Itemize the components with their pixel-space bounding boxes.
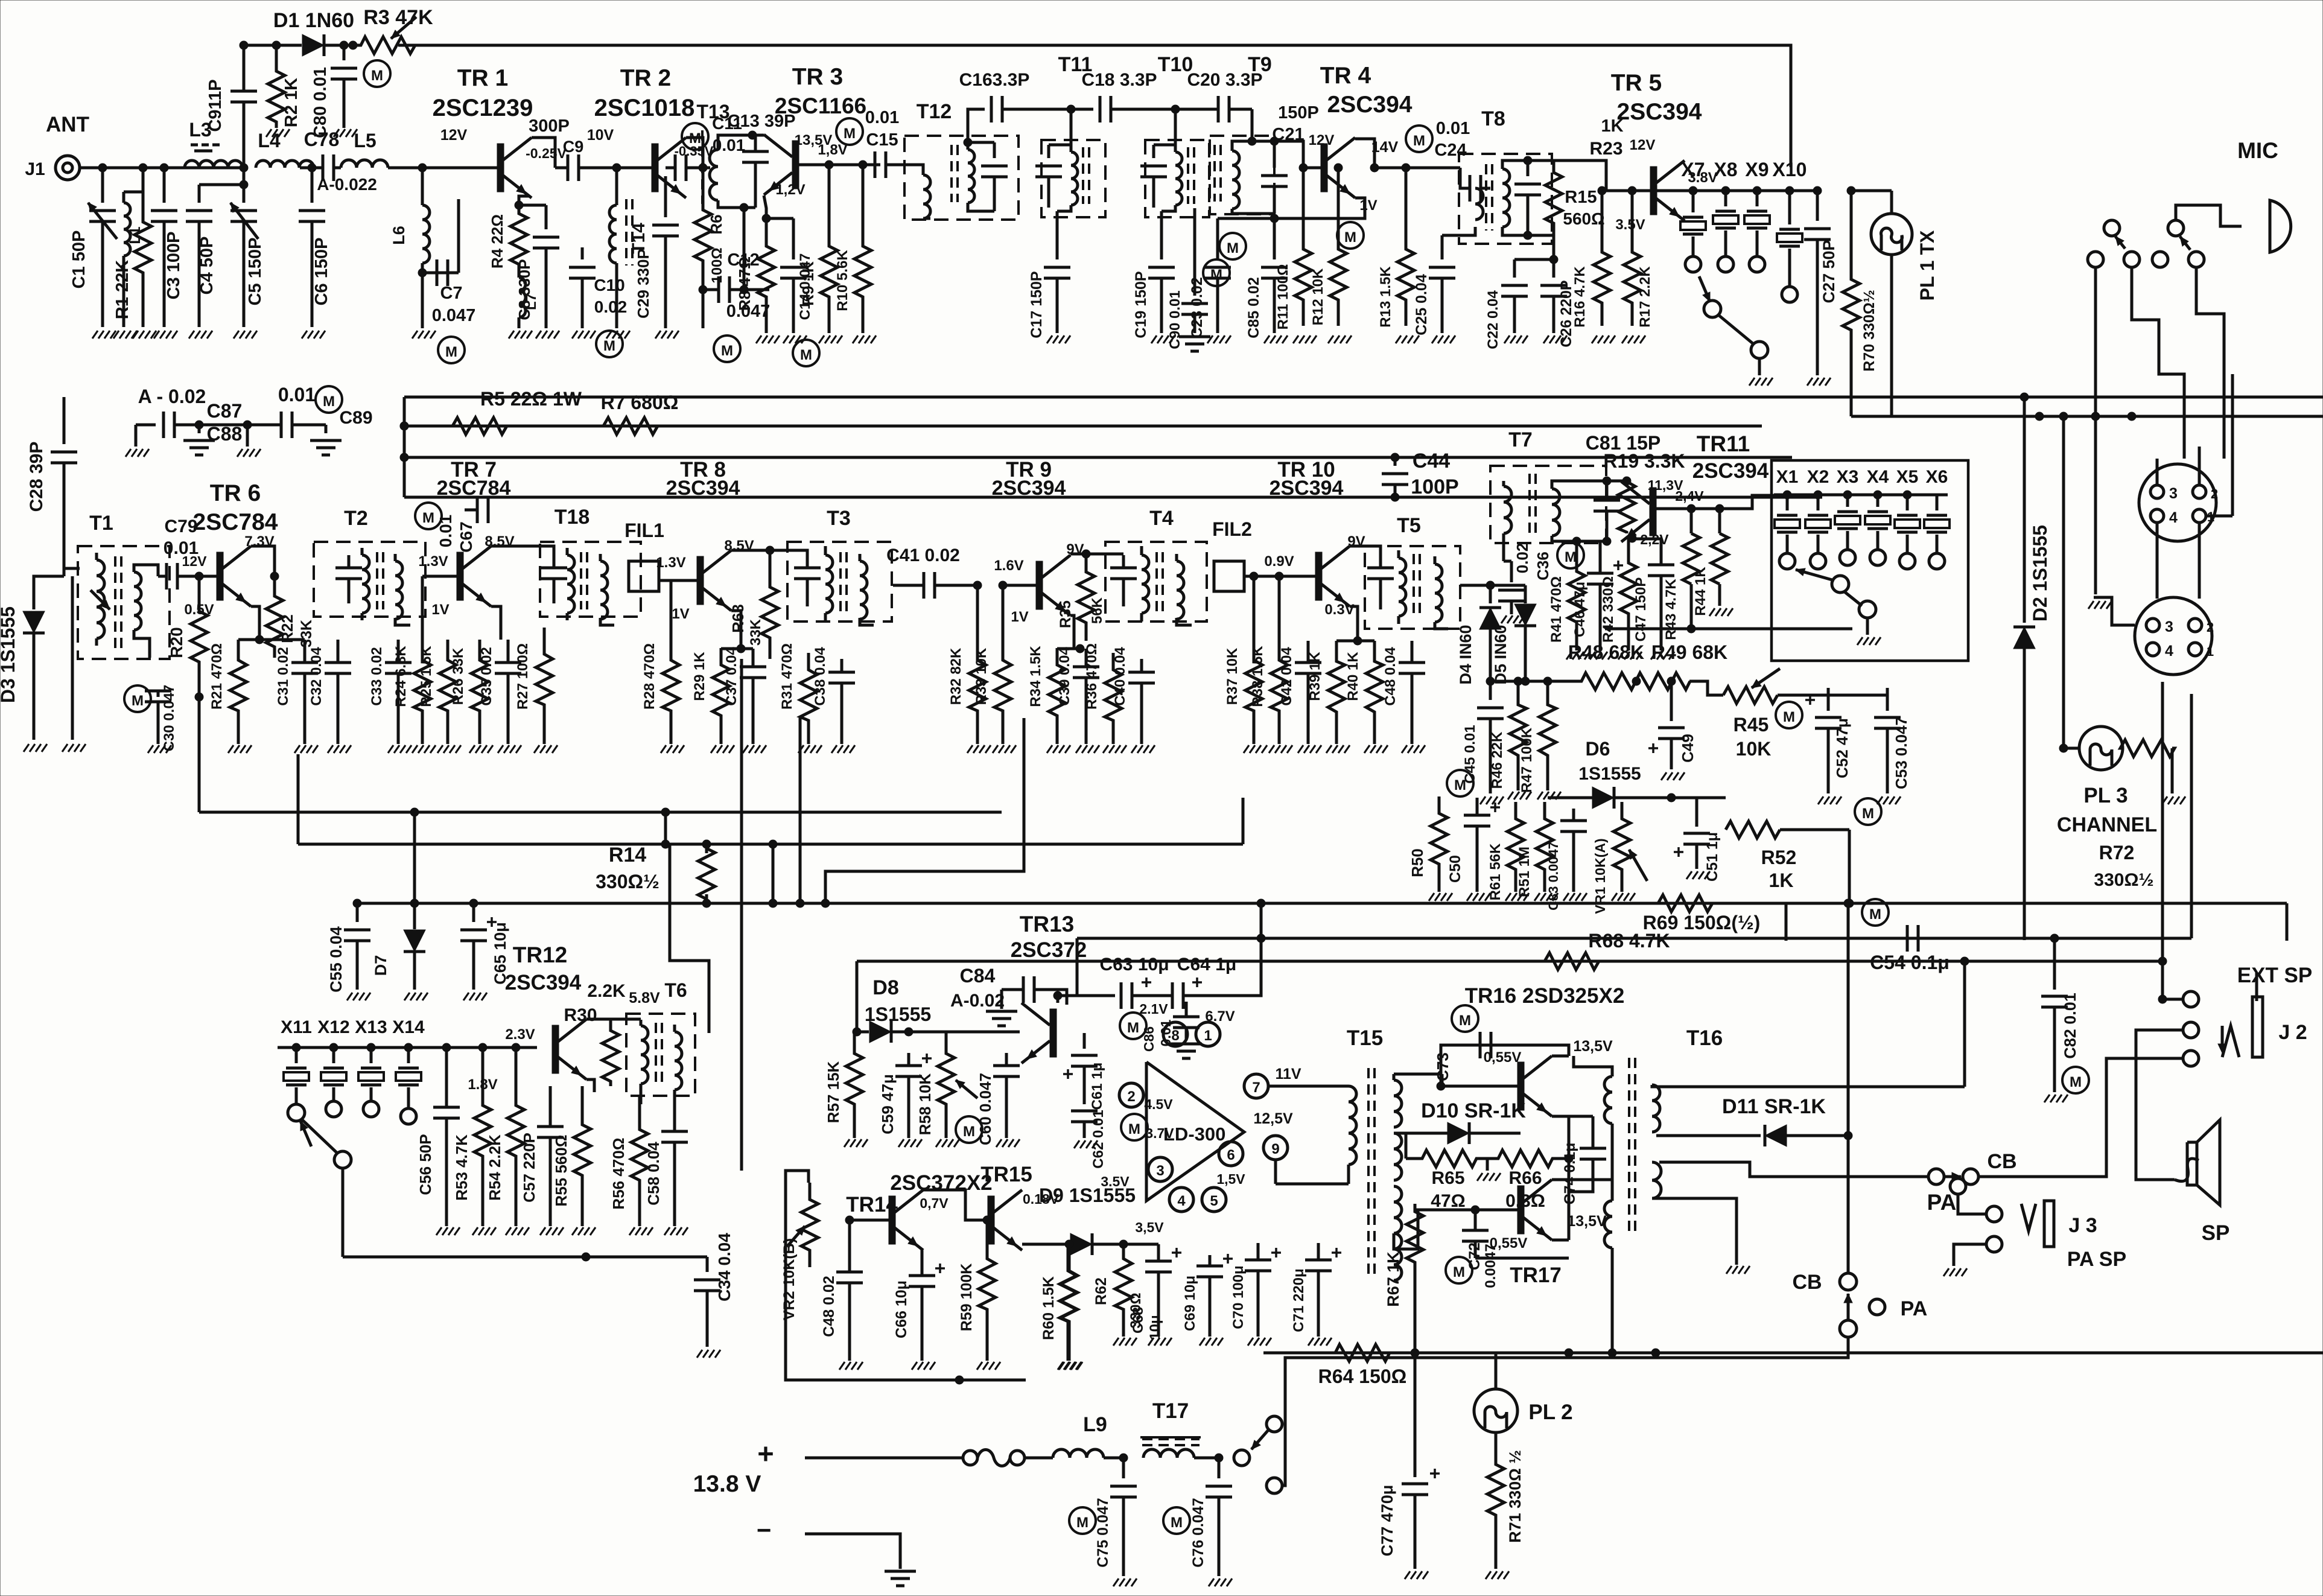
- label 3.5V: [1615, 217, 1645, 233]
- wire TR12 emitter: [586, 1079, 594, 1092]
- capacitor C51: [1674, 798, 1710, 879]
- svg-text:T17: T17: [1152, 1399, 1189, 1423]
- svg-text:2SC394: 2SC394: [1692, 459, 1769, 483]
- label 1.6V: [994, 558, 1023, 574]
- svg-text:TR12: TR12: [513, 943, 567, 967]
- svg-text:C60 0.047: C60 0.047: [976, 1073, 994, 1145]
- svg-text:2SC784: 2SC784: [193, 509, 278, 535]
- label 13.5V TR17: [1567, 1213, 1607, 1230]
- svg-text:4: 4: [1177, 1193, 1186, 1209]
- ladder R27 100: [515, 628, 558, 753]
- svg-text:X4: X4: [1867, 467, 1889, 487]
- label TR11 2SC394: [1692, 431, 1769, 483]
- label 0.18V: [1023, 1191, 1060, 1207]
- svg-text:M: M: [1783, 709, 1795, 725]
- gnd R65: [1477, 1173, 1501, 1181]
- svg-text:2SC1018: 2SC1018: [594, 95, 695, 121]
- svg-text:PA: PA: [1927, 1190, 1957, 1215]
- svg-text:7: 7: [1252, 1079, 1260, 1096]
- wire pin7 line: [1268, 1085, 1349, 1088]
- label TR14: [846, 1193, 898, 1216]
- pin 2: [1119, 1083, 1143, 1107]
- transistor TR6: [199, 546, 251, 606]
- wire mesh final A: [1892, 412, 2323, 421]
- ladder C47 150P: [1632, 539, 1674, 660]
- ladder R33 10K: [973, 581, 1016, 753]
- label TR5 2SC394: [1611, 70, 1702, 125]
- op-amp LD-300: [1146, 1062, 1244, 1201]
- crystal X8: [1713, 191, 1738, 272]
- label SP: [2202, 1221, 2230, 1245]
- M mark C23: [1219, 233, 1246, 259]
- label C22 0.04: [1485, 290, 1501, 349]
- label 0.01 C24: [1434, 119, 1470, 160]
- crystal X3: [1835, 495, 1860, 565]
- transformer T10 coils: [1154, 145, 1194, 211]
- svg-text:M: M: [1565, 549, 1577, 565]
- svg-text:R35: R35: [1057, 600, 1074, 628]
- label R71 330: [1506, 1450, 1524, 1543]
- label FIL1: [624, 520, 664, 541]
- svg-text:M: M: [1869, 906, 1881, 923]
- resistor R22 33K: [266, 572, 283, 658]
- svg-text:3: 3: [2165, 618, 2173, 635]
- svg-text:R33 10K: R33 10K: [973, 647, 990, 705]
- svg-text:R43 4.7K: R43 4.7K: [1663, 579, 1679, 640]
- M mark C54: [1862, 899, 1889, 926]
- svg-text:M: M: [1128, 1121, 1140, 1137]
- ladder C58 0.04: [644, 1096, 688, 1235]
- wire x494 riser: [297, 754, 300, 844]
- M C67 block: [415, 497, 488, 553]
- svg-text:R31 470Ω: R31 470Ω: [779, 643, 795, 710]
- label TR4 2SC394: [1320, 63, 1413, 118]
- svg-text:R36 470Ω: R36 470Ω: [1084, 643, 1100, 710]
- wire PL3 left: [2059, 744, 2079, 752]
- wire TR2 collector: [686, 138, 703, 168]
- wire TR4 emitter: [1270, 198, 1365, 223]
- svg-text:+: +: [757, 1437, 774, 1469]
- crystal X13: [358, 1048, 384, 1117]
- label T11: [1058, 53, 1093, 76]
- svg-text:2: 2: [2211, 486, 2218, 501]
- R67 final: [1406, 1204, 1423, 1353]
- label TR3 2SC1166: [775, 64, 866, 118]
- wire TR16 emitter: [1552, 1115, 1569, 1118]
- wire T15 pb3: [1302, 1183, 1349, 1186]
- label D4 1N60: [1457, 625, 1475, 684]
- capacitor T18 tune: [541, 555, 567, 603]
- svg-text:T16: T16: [1686, 1026, 1723, 1050]
- ladder R60b: [1040, 1240, 1082, 1370]
- svg-text:T6: T6: [664, 979, 687, 1001]
- coil T12 input: [908, 165, 930, 218]
- label C10 0.02: [594, 276, 627, 316]
- capacitor T12 tune: [968, 142, 1008, 211]
- inductor L1: [113, 192, 143, 339]
- svg-text:C50: C50: [1447, 855, 1464, 883]
- resistor R48 68K: [1581, 673, 1636, 690]
- label L6: [390, 226, 408, 245]
- label C1 50P: [69, 230, 89, 289]
- wire rail y758: [404, 456, 1792, 459]
- label D11 SR-1K: [1722, 1095, 1826, 1118]
- svg-text:C66 10μ: C66 10μ: [893, 1280, 910, 1338]
- wire J2 c2 link: [2136, 1030, 2183, 1180]
- label 1.5V: [1216, 1171, 1245, 1187]
- svg-text:R32 82K: R32 82K: [948, 647, 964, 705]
- ladder C33 0.02: [369, 640, 412, 753]
- wire C20 to T9: [1248, 109, 1256, 145]
- capacitor C63: [1121, 982, 1172, 1009]
- potentiometer R58 10K: [916, 1032, 977, 1147]
- svg-text:11V: 11V: [1275, 1066, 1301, 1083]
- svg-text:0,7V: 0,7V: [920, 1195, 949, 1211]
- capacitor C41 0.02: [893, 572, 977, 599]
- label R65 47: [1431, 1168, 1465, 1211]
- svg-text:C62 0.01: C62 0.01: [1090, 1110, 1107, 1168]
- wire conn1 right: [2206, 374, 2232, 516]
- label C77 470u: [1378, 1485, 1396, 1557]
- label X11-X14: [281, 1017, 425, 1037]
- svg-text:R38 1.5K: R38 1.5K: [1250, 646, 1266, 707]
- M mark C7: [438, 337, 465, 363]
- ladder R39 1K: [1307, 637, 1362, 753]
- wire vm 3380: [2059, 412, 2068, 748]
- label R4 22: [488, 214, 506, 269]
- svg-text:5.8V: 5.8V: [629, 990, 660, 1006]
- label C51 1u: [1704, 832, 1721, 882]
- wire TR14-TR15: [923, 1190, 987, 1220]
- variable capacitor C1 50P: [88, 168, 117, 339]
- label 9V: [1347, 533, 1365, 550]
- label 2SC372X2: [890, 1171, 992, 1195]
- resistor R13 1.5K: [1396, 168, 1419, 343]
- svg-text:FIL2: FIL2: [1212, 518, 1252, 540]
- svg-text:M: M: [132, 693, 144, 709]
- svg-text:C17 150P: C17 150P: [1028, 271, 1045, 338]
- svg-text:0.3V: 0.3V: [1324, 602, 1354, 618]
- label 8.5V: [485, 533, 514, 550]
- ladder R57 15K: [824, 1032, 868, 1147]
- label R49 68K: [1651, 641, 1727, 663]
- svg-text:C15: C15: [866, 130, 898, 150]
- transistor TR1: [418, 138, 532, 198]
- label R20 6.8K: [167, 627, 186, 658]
- label TR10 2SC394: [1270, 458, 1344, 500]
- ladder R41 470: [1548, 537, 1590, 660]
- block C87 C88 C89: [126, 412, 342, 457]
- wire top bus: [398, 45, 1791, 167]
- label C13 39P: [728, 112, 796, 131]
- svg-text:0.01: 0.01: [278, 384, 316, 405]
- label 8.5V: [724, 538, 754, 554]
- label LD300d: [1163, 1124, 1225, 1145]
- resistor R30 zig: [602, 1026, 675, 1104]
- transistor TR11: [1621, 482, 1656, 542]
- svg-text:X5: X5: [1896, 467, 1919, 487]
- label R45 10K: [1734, 714, 1772, 760]
- ladder R60 1.5K: [1058, 1244, 1081, 1370]
- svg-text:C49: C49: [1679, 734, 1697, 763]
- wire TR5 line to lamp: [1847, 186, 1892, 195]
- capacitor T8 tune: [1514, 156, 1541, 240]
- capacitor C7 0.047: [412, 199, 459, 339]
- label R17 2.2K: [1637, 266, 1653, 328]
- capacitor C19 150P: [1148, 211, 1175, 343]
- svg-text:R65: R65: [1431, 1168, 1464, 1188]
- M mark C89: [316, 386, 342, 413]
- resistor R9 1K: [819, 165, 842, 343]
- mic wire down 1: [2096, 267, 2199, 599]
- svg-text:C39 0.04: C39 0.04: [1057, 647, 1073, 706]
- capacitor C84: [986, 976, 1067, 1026]
- wire vm 3533: [2132, 267, 2184, 459]
- label 13.5V TR16: [1573, 1038, 1613, 1055]
- svg-text:PL 2: PL 2: [1528, 1400, 1572, 1424]
- capacitor C86 body: [1171, 1002, 1202, 1058]
- D10 draw: [1406, 1122, 1521, 1144]
- label R16 4.7K: [1572, 266, 1588, 328]
- wire TR8 collector: [731, 550, 807, 555]
- ladder R51 1M: [1516, 802, 1558, 901]
- label T1: [89, 512, 113, 535]
- capacitor C49 1u: [1648, 677, 1685, 780]
- label C72b: [1482, 1244, 1499, 1288]
- ladder R62 330: [1093, 1242, 1144, 1346]
- label T3: [827, 507, 851, 530]
- svg-text:TR17: TR17: [1510, 1264, 1562, 1287]
- capacitor T11 tune: [1035, 145, 1062, 208]
- resistor R45 10K: [1689, 669, 1780, 704]
- wire TR17 emitter: [1552, 1159, 1569, 1240]
- capacitor T2 tune: [335, 555, 362, 603]
- svg-text:1S1555: 1S1555: [865, 1003, 931, 1025]
- ladder C59 47u: [879, 1053, 932, 1147]
- svg-text:TR 6: TR 6: [210, 480, 261, 506]
- label TR13 2SC372: [1011, 912, 1087, 962]
- label 0.5V: [184, 602, 214, 618]
- label C34 0.04: [715, 1233, 734, 1302]
- ladder C60 0.047: [976, 1053, 1020, 1147]
- label 0.55V: [1484, 1049, 1522, 1066]
- diode D4 1N60: [1479, 585, 1501, 685]
- svg-text:2.1V: 2.1V: [1139, 1001, 1168, 1017]
- label C84 A-0.02: [950, 965, 1005, 1011]
- svg-text:1K: 1K: [1601, 116, 1623, 136]
- svg-text:C10: C10: [594, 276, 624, 294]
- svg-text:R71 330Ω ½: R71 330Ω ½: [1506, 1450, 1524, 1543]
- filter FIL1 box: [629, 561, 659, 591]
- label T5: [1397, 514, 1421, 537]
- svg-text:C80 0.01: C80 0.01: [311, 67, 330, 138]
- transformer T9 coils: [1215, 141, 1252, 214]
- crystal X1: [1775, 495, 1800, 569]
- svg-text:M: M: [323, 393, 335, 410]
- label L4: [258, 130, 281, 151]
- resistor R63: [761, 546, 778, 659]
- svg-text:C73: C73: [1434, 1052, 1452, 1081]
- capacitor T10 tune: [1140, 145, 1167, 208]
- svg-text:3.5V: 3.5V: [1615, 217, 1645, 233]
- label R2 1K: [282, 78, 301, 127]
- svg-text:0.0047: 0.0047: [1482, 1244, 1499, 1288]
- svg-text:12V: 12V: [1630, 137, 1656, 153]
- label R7 680: [601, 392, 679, 413]
- capacitor C8 330P: [515, 201, 559, 339]
- transformer T8 main: [1486, 161, 1528, 235]
- ladder R21 470: [209, 635, 264, 753]
- labels X1-X6: [1776, 467, 1948, 487]
- resistor R72: [2120, 740, 2185, 804]
- label 12V: [440, 127, 468, 144]
- wire y658 junctions: [2020, 393, 2029, 401]
- svg-text:R11 100Ω: R11 100Ω: [1275, 264, 1291, 330]
- label PA SP: [2067, 1248, 2126, 1271]
- svg-text:56K: 56K: [1089, 597, 1105, 624]
- svg-text:2SC394: 2SC394: [505, 971, 582, 994]
- capacitor C72 body: [1462, 1206, 1569, 1258]
- svg-text:M: M: [371, 68, 383, 84]
- svg-text:X6: X6: [1926, 467, 1948, 487]
- ladder C38 0.04: [812, 647, 855, 753]
- capacitor C15: [875, 151, 908, 178]
- M mark C82: [2062, 1067, 2089, 1093]
- M mark C30: [124, 685, 151, 712]
- svg-text:R45: R45: [1734, 714, 1769, 736]
- svg-text:C53 0.047: C53 0.047: [1892, 717, 1910, 789]
- svg-text:C6 150P: C6 150P: [312, 238, 331, 306]
- frame final: [786, 1171, 1026, 1384]
- label 3.5V D9: [1135, 1219, 1164, 1235]
- svg-text:R19 3.3K: R19 3.3K: [1603, 450, 1685, 472]
- label 14V: [1371, 139, 1399, 156]
- svg-text:C33 0.02: C33 0.02: [369, 647, 385, 705]
- transformer T9 box: [1210, 136, 1274, 214]
- wire TR4 collector: [1355, 139, 1460, 172]
- svg-text:J1: J1: [25, 159, 45, 179]
- label C7 0.047: [432, 284, 476, 325]
- svg-text:1V: 1V: [431, 602, 449, 618]
- wire TR10 collector: [1350, 546, 1381, 555]
- crystal X14: [396, 1048, 421, 1124]
- label C55 0.04: [327, 926, 345, 993]
- label TR7 2SC784: [437, 458, 511, 500]
- svg-text:C68: C68: [1130, 1307, 1146, 1334]
- wire TR16 emitter col: [1565, 1116, 1573, 1163]
- label R10 5.6K: [834, 250, 851, 311]
- svg-text:R53 4.7K: R53 4.7K: [453, 1134, 471, 1201]
- svg-text:TR 2: TR 2: [620, 65, 672, 91]
- svg-text:R4 22Ω: R4 22Ω: [488, 214, 506, 269]
- svg-text:C32 0.04: C32 0.04: [308, 647, 325, 706]
- label -0.25V: [526, 145, 567, 161]
- label T4: [1149, 507, 1174, 530]
- diode D2 1S1555: [2013, 397, 2035, 940]
- svg-text:R46 22K: R46 22K: [1489, 731, 1505, 789]
- svg-text:J 2: J 2: [2278, 1021, 2307, 1044]
- label 0.7V: [920, 1195, 949, 1211]
- svg-text:M: M: [1127, 1020, 1139, 1036]
- svg-text:2SC394: 2SC394: [666, 477, 740, 500]
- capacitor C36 0.02: [1498, 541, 1525, 623]
- wire rail risers: [400, 397, 408, 497]
- crystal X11: [284, 1048, 309, 1104]
- inductor L6: [422, 168, 430, 273]
- svg-text:C5 150P: C5 150P: [246, 238, 265, 306]
- T17 core2: [1142, 1439, 1200, 1445]
- svg-text:C23 0.02: C23 0.02: [1189, 277, 1206, 338]
- svg-text:C7: C7: [440, 284, 462, 303]
- lamp PL3: [2079, 726, 2123, 770]
- svg-text:PA: PA: [1901, 1297, 1928, 1320]
- potentiometer VR1 10K(A): [1592, 802, 1647, 914]
- wire x1103 link: [664, 812, 667, 844]
- svg-text:0,55V: 0,55V: [1484, 1049, 1522, 1066]
- resistor R70 330: [1843, 191, 1860, 416]
- wire x687 riser: [410, 812, 419, 908]
- label T15: [1347, 1026, 1383, 1050]
- capacitor C76 0.047: [1206, 1454, 1232, 1586]
- svg-text:L4: L4: [258, 130, 281, 151]
- wire C16 to T11: [1041, 105, 1093, 145]
- svg-text:R20: R20: [167, 627, 186, 658]
- transformer T6 coils: [641, 1020, 682, 1096]
- ladder C32 0.04: [308, 640, 351, 753]
- wire D11 line: [1784, 1131, 1852, 1140]
- transistor TR9: [1003, 555, 1070, 615]
- svg-text:X11: X11: [281, 1017, 312, 1037]
- ladder R28 470: [641, 580, 684, 753]
- svg-text:ANT: ANT: [46, 113, 89, 136]
- svg-text:C1 50P: C1 50P: [69, 230, 89, 289]
- label C28 39P: [27, 442, 46, 512]
- transistor TR13: [1022, 1003, 1057, 1063]
- svg-text:C78: C78: [304, 129, 340, 150]
- coil T15 secondary: [1394, 1074, 1481, 1249]
- label 0.9V: [1264, 553, 1294, 570]
- wire C59 top: [904, 1028, 913, 1036]
- ladder R40 1K: [1345, 641, 1388, 753]
- svg-text:M: M: [963, 1124, 975, 1140]
- diode D5 1N60: [1514, 585, 1536, 681]
- label C73 0.0047: [1434, 1052, 1452, 1081]
- svg-text:C64 1μ: C64 1μ: [1177, 955, 1236, 974]
- transformer T2 box: [314, 542, 425, 617]
- pin 1: [1196, 1022, 1220, 1046]
- capacitor C34 0.04: [694, 1257, 720, 1358]
- pin 5: [1202, 1187, 1226, 1212]
- svg-text:T5: T5: [1397, 514, 1421, 537]
- crystal X2: [1805, 495, 1831, 569]
- label D1 1N60: [273, 9, 354, 32]
- svg-text:R15: R15: [1565, 188, 1597, 207]
- transistor TR16: [1442, 1056, 1552, 1116]
- wire TR13 top: [1053, 991, 1115, 1003]
- svg-text:2: 2: [1127, 1089, 1135, 1105]
- resistor R44 1K: [1692, 509, 1733, 616]
- label T8: [1481, 107, 1505, 130]
- capacitor C78: [300, 154, 341, 181]
- svg-text:-0.25V: -0.25V: [526, 145, 567, 161]
- label 1V: [672, 606, 689, 622]
- svg-text:T2: T2: [344, 507, 368, 530]
- svg-text:12V: 12V: [440, 127, 468, 144]
- label C81 15P: [1586, 432, 1661, 454]
- capacitor C17 150P: [1044, 211, 1070, 343]
- coil T15 primary: [1349, 1086, 1356, 1165]
- wire antenna line: [80, 164, 248, 172]
